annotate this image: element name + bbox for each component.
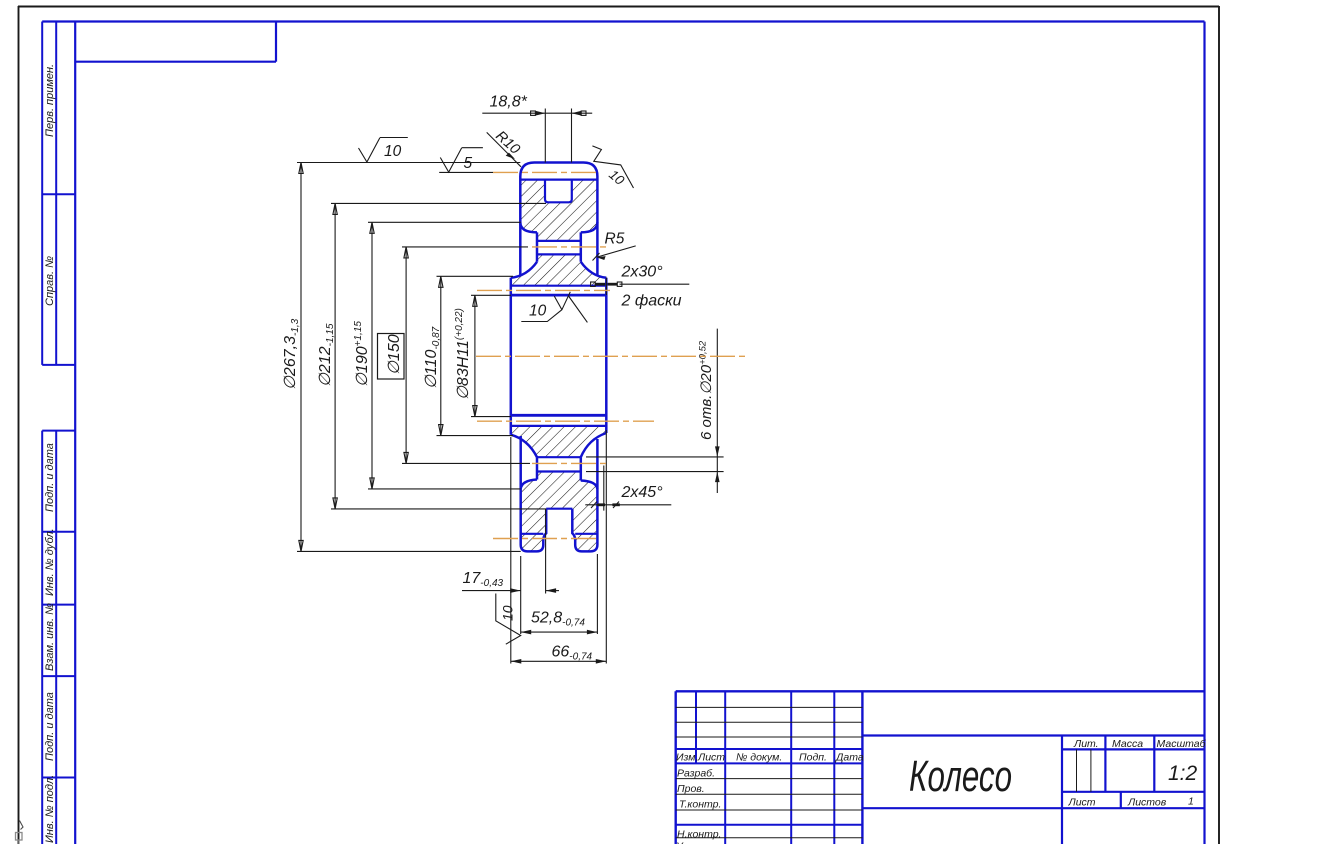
svg-text:Т.контр.: Т.контр. <box>679 799 721 811</box>
dimension extension lines left <box>297 163 546 552</box>
hub faces <box>511 278 607 435</box>
dim 2x30 chamfers <box>591 278 690 295</box>
svg-text:10: 10 <box>500 605 516 621</box>
rim outer contour upper <box>511 163 607 552</box>
svg-text:Лист: Лист <box>1068 797 1096 809</box>
bore top <box>511 294 607 297</box>
roughness 10 on bore <box>521 292 587 323</box>
dim 17 <box>462 588 559 593</box>
svg-text:Справ. №: Справ. № <box>44 256 56 306</box>
svg-text:R5: R5 <box>605 231 625 248</box>
svg-text:Разраб.: Разраб. <box>677 768 715 780</box>
wheel section hatching lower hub and web <box>511 426 607 457</box>
svg-text:18,8*: 18,8* <box>490 94 528 111</box>
groove root lower <box>546 508 572 510</box>
svg-text:Изм.: Изм. <box>676 752 698 764</box>
hole pattern dim 6 otv <box>586 329 724 493</box>
svg-text:1: 1 <box>1188 796 1194 808</box>
keyway band lines lower <box>511 425 607 427</box>
svg-text:Утв.: Утв. <box>675 841 700 844</box>
title block outer <box>676 691 1205 844</box>
wheel section hatching lower rim <box>521 472 598 552</box>
svg-text:Подп.: Подп. <box>799 752 827 764</box>
roughness 10 top left <box>359 138 408 163</box>
keyway band lines upper <box>511 285 607 287</box>
svg-text:Масштаб: Масштаб <box>1157 738 1207 750</box>
roughness 10 bottom <box>496 594 521 645</box>
svg-text:Пров.: Пров. <box>677 783 705 795</box>
bore bottom <box>511 414 607 417</box>
hub to web fillets lower <box>511 433 607 457</box>
svg-text:№ докум.: № докум. <box>736 752 782 764</box>
tooth root side lines lower <box>521 533 598 535</box>
dim 2x45 <box>585 466 671 511</box>
svg-text:Перв. примен.: Перв. примен. <box>44 64 56 137</box>
web faces lower <box>537 457 581 480</box>
svg-text:Дата: Дата <box>835 752 864 764</box>
leader R10 <box>487 132 521 166</box>
roughness 5 <box>440 148 483 172</box>
svg-text:∅150: ∅150 <box>386 334 403 375</box>
roughness 10 rotated right <box>592 146 633 188</box>
left strip labels <box>44 64 56 843</box>
web to rim fillets lower <box>521 480 598 489</box>
lightening hole upper <box>537 241 581 255</box>
svg-text:2 фаски: 2 фаски <box>621 293 682 310</box>
diameter dimension lines <box>299 163 477 552</box>
svg-text:Взам. инв. №: Взам. инв. № <box>44 603 56 671</box>
title block left grid <box>676 691 863 844</box>
svg-text:Подп. и дата: Подп. и дата <box>44 692 56 761</box>
svg-text:5: 5 <box>464 155 473 172</box>
diameter texts rotated <box>282 308 472 400</box>
bottom extension lines <box>511 430 607 664</box>
wheel section hatching upper web and hub <box>511 254 607 285</box>
rim faces lower <box>521 436 598 545</box>
svg-text:Инв. № подл.: Инв. № подл. <box>44 775 56 843</box>
svg-text:Н.контр.: Н.контр. <box>677 829 721 841</box>
right tooth foot <box>572 509 597 552</box>
dim 18.8 <box>482 109 592 163</box>
top-left designation box <box>75 22 276 62</box>
svg-text:1:2: 1:2 <box>1168 762 1198 785</box>
svg-text:Лит.: Лит. <box>1073 738 1099 750</box>
svg-text:Лист: Лист <box>697 752 725 764</box>
dim 66 <box>511 659 607 664</box>
web to hub fillets upper <box>511 262 607 278</box>
web faces upper <box>537 232 581 261</box>
svg-text:2х30°: 2х30° <box>621 264 664 281</box>
svg-text:Масса: Масса <box>1112 738 1143 750</box>
svg-text:Колесо: Колесо <box>909 752 1012 801</box>
wheel section hatching upper rim <box>520 180 597 241</box>
tooth root line upper <box>520 179 597 181</box>
svg-text:Подп. и дата: Подп. и дата <box>44 443 56 512</box>
svg-text:Инв. № дубл.: Инв. № дубл. <box>44 528 56 596</box>
frame around basic dim 150 <box>378 334 405 380</box>
cursor glyph <box>16 833 23 844</box>
left margin strip columns <box>42 22 75 844</box>
dim 52.8 <box>521 630 598 635</box>
title block right grid <box>862 736 1204 844</box>
svg-text:Листов: Листов <box>1127 797 1167 809</box>
left tooth foot <box>521 509 547 552</box>
svg-text:10: 10 <box>529 303 547 320</box>
rim to web fillets upper <box>520 222 597 232</box>
lightening hole lower <box>537 457 581 471</box>
leader R5 <box>593 246 636 261</box>
centerlines orange <box>476 172 746 538</box>
title block texts <box>675 738 1207 844</box>
svg-text:10: 10 <box>384 143 402 160</box>
svg-text:2х45°: 2х45° <box>621 484 664 501</box>
groove slot upper <box>545 180 572 203</box>
